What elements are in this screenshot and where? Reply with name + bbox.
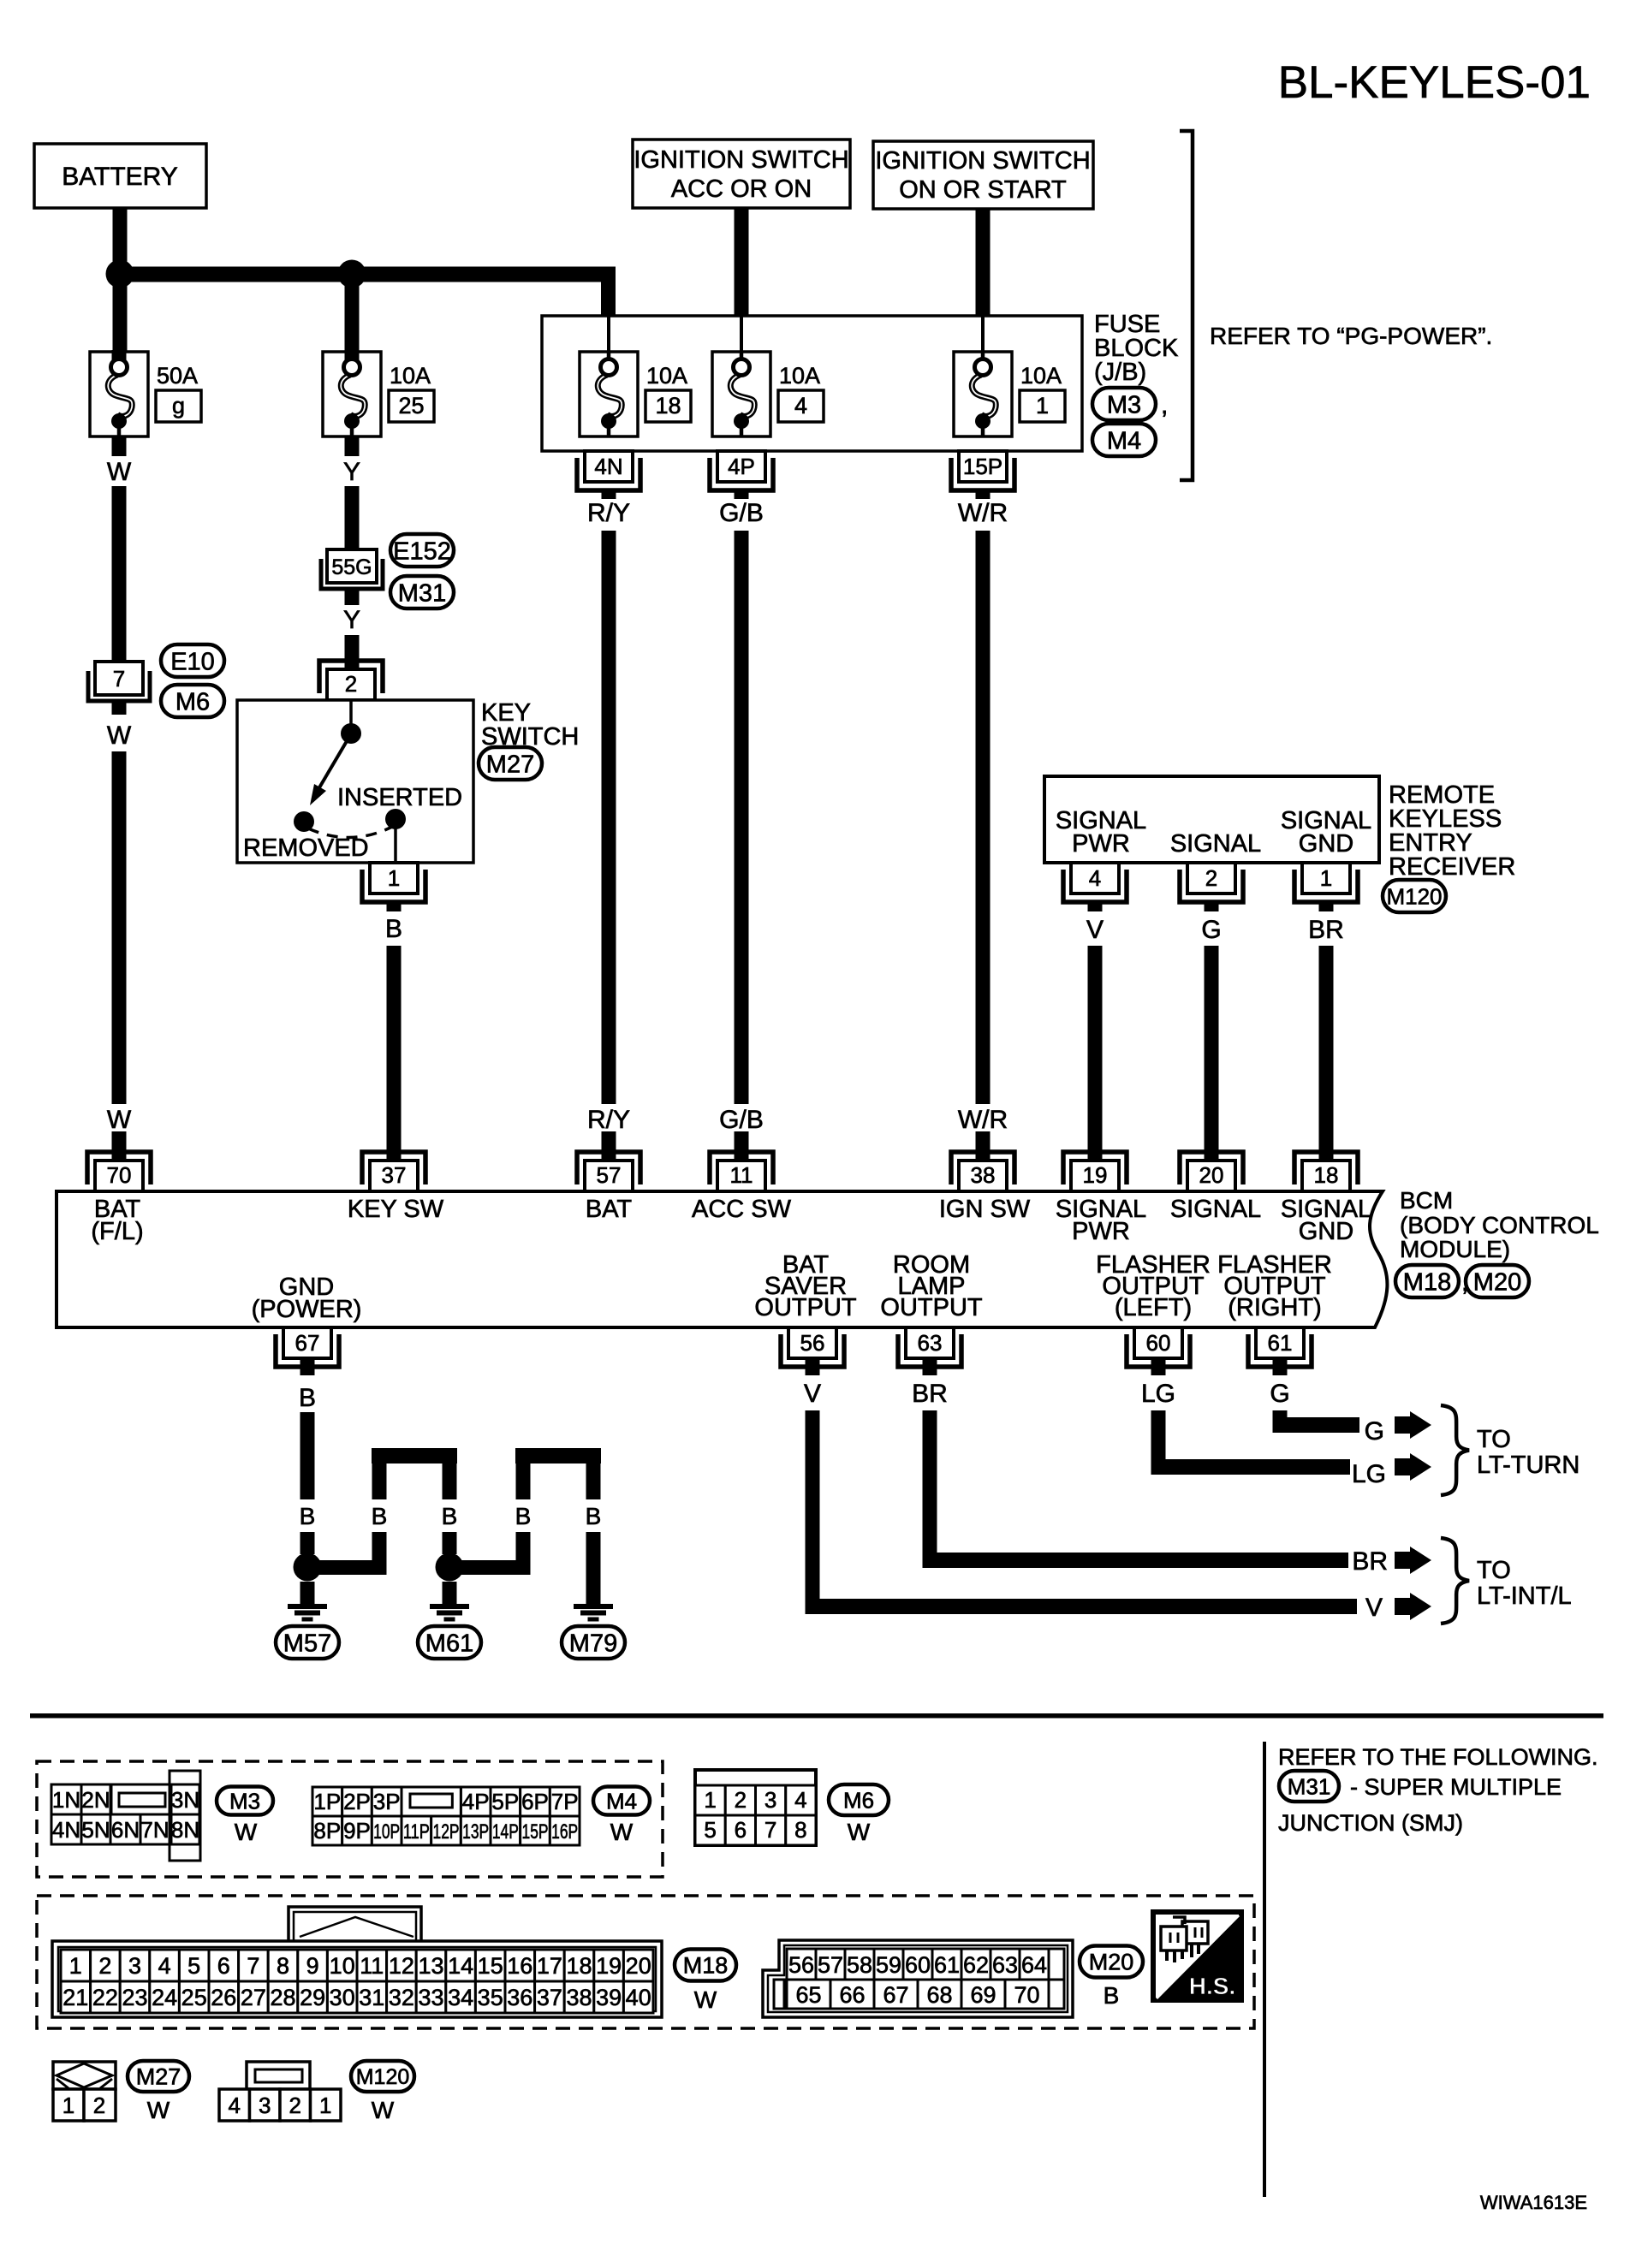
svg-text:LT-TURN: LT-TURN bbox=[1477, 1452, 1579, 1479]
jumper 1 top bbox=[372, 1448, 457, 1464]
fuse 10A 18 bbox=[580, 352, 638, 436]
connector M3 pin grid bbox=[111, 1784, 170, 1814]
BCM pin 19 bbox=[1063, 1152, 1127, 1184]
jumper 2 left leg, B bbox=[516, 1464, 531, 1499]
receiver pin 2 bbox=[1180, 870, 1243, 902]
svg-text:W/R: W/R bbox=[958, 499, 1008, 527]
svg-text:M61: M61 bbox=[425, 1630, 473, 1657]
svg-text:BCM: BCM bbox=[1400, 1187, 1453, 1214]
ground symbol M79 bbox=[574, 1604, 613, 1609]
pin 4N of fuse block bbox=[577, 458, 640, 490]
dashed box M18 M20 bbox=[37, 1896, 1254, 2028]
svg-text:B: B bbox=[586, 1503, 602, 1529]
svg-text:65: 65 bbox=[795, 1982, 821, 2008]
svg-text:10A: 10A bbox=[1020, 363, 1062, 389]
label M3 W bbox=[217, 1787, 273, 1815]
svg-text:60: 60 bbox=[905, 1952, 931, 1978]
svg-text:63: 63 bbox=[992, 1952, 1018, 1978]
separator line bbox=[30, 1713, 1603, 1719]
ground junction M61 bbox=[436, 1553, 464, 1582]
svg-text:38: 38 bbox=[566, 1985, 592, 2010]
svg-text:61: 61 bbox=[934, 1952, 960, 1978]
svg-text:2: 2 bbox=[345, 671, 357, 697]
svg-text:27: 27 bbox=[241, 1985, 266, 2010]
svg-text:G/B: G/B bbox=[719, 499, 764, 527]
receiver pin 4 bbox=[1063, 870, 1127, 902]
svg-text:G: G bbox=[1365, 1417, 1384, 1446]
svg-text:11: 11 bbox=[730, 1162, 753, 1188]
label M20 B bbox=[1080, 1946, 1143, 1978]
svg-text:MODULE): MODULE) bbox=[1400, 1236, 1510, 1262]
label M6 bbox=[161, 685, 224, 717]
key switch INSERTED contact bbox=[385, 809, 406, 829]
svg-text:4P: 4P bbox=[462, 1789, 490, 1814]
svg-text:15: 15 bbox=[478, 1953, 503, 1979]
svg-text:38: 38 bbox=[971, 1162, 996, 1188]
svg-text:(POWER): (POWER) bbox=[252, 1296, 362, 1323]
svg-text:59: 59 bbox=[876, 1952, 901, 1978]
svg-text:3P: 3P bbox=[373, 1789, 401, 1814]
svg-text:M27: M27 bbox=[486, 751, 534, 778]
svg-text:GND: GND bbox=[1299, 1218, 1353, 1245]
svg-text:1: 1 bbox=[1320, 865, 1332, 891]
wire BCM 63 output, BR bbox=[923, 1357, 937, 1375]
connector M120 symbol bbox=[247, 2062, 310, 2089]
svg-text:B: B bbox=[299, 1384, 316, 1412]
label M6 W bbox=[829, 1784, 889, 1815]
svg-text:W: W bbox=[848, 1819, 871, 1845]
svg-text:B: B bbox=[515, 1503, 532, 1529]
fuse 10A 25 bbox=[323, 352, 381, 436]
svg-text:2: 2 bbox=[735, 1787, 747, 1813]
svg-text:W: W bbox=[372, 2097, 395, 2123]
wire 4N to BCM 57, R/Y bbox=[602, 490, 616, 499]
svg-text:W/R: W/R bbox=[958, 1106, 1008, 1134]
brace TO LT-INT/L bbox=[1441, 1538, 1469, 1624]
arrow BR bbox=[1395, 1552, 1410, 1569]
svg-text:3: 3 bbox=[128, 1953, 141, 1979]
svg-text:H.S.: H.S. bbox=[1189, 1973, 1235, 1999]
svg-text:57: 57 bbox=[597, 1162, 622, 1188]
BCM pin 70 bbox=[87, 1152, 151, 1184]
svg-text:KEY SW: KEY SW bbox=[348, 1196, 444, 1223]
svg-text:6P: 6P bbox=[521, 1789, 549, 1814]
svg-text:37: 37 bbox=[537, 1985, 562, 2010]
arrow LG bbox=[1395, 1458, 1410, 1475]
wire BCM 61 output, G bbox=[1273, 1357, 1288, 1375]
svg-text:19: 19 bbox=[1083, 1162, 1108, 1188]
svg-text:18: 18 bbox=[1314, 1162, 1339, 1188]
wire ignition ACC to fuse block bbox=[735, 208, 749, 316]
wire fuse 25 to 55G, Y bbox=[345, 436, 360, 456]
svg-text:W: W bbox=[107, 458, 132, 486]
key switch pin 1 bbox=[362, 870, 425, 902]
svg-text:BR: BR bbox=[1352, 1547, 1388, 1576]
svg-text:30: 30 bbox=[330, 1985, 355, 2010]
svg-text:70: 70 bbox=[107, 1162, 132, 1188]
H.S. hand symbol bbox=[1153, 1912, 1241, 2000]
wire bus turn down to fuse block bbox=[601, 282, 616, 316]
svg-text:M31: M31 bbox=[1288, 1773, 1331, 1799]
label E152 bbox=[390, 534, 454, 567]
svg-text:REFER TO “PG-POWER”.: REFER TO “PG-POWER”. bbox=[1210, 323, 1492, 349]
key switch throw arrow bbox=[318, 741, 347, 789]
svg-text:4: 4 bbox=[1089, 865, 1101, 891]
svg-text:18: 18 bbox=[655, 393, 681, 419]
wire BCM 60 output, LG bbox=[1151, 1357, 1166, 1375]
svg-text:63: 63 bbox=[918, 1330, 943, 1356]
svg-text:17: 17 bbox=[537, 1953, 562, 1979]
svg-text:25: 25 bbox=[398, 393, 424, 419]
key switch REMOVED contact bbox=[294, 811, 314, 832]
svg-text:W: W bbox=[610, 1819, 634, 1845]
label M4 W bbox=[593, 1787, 650, 1815]
svg-text:R/Y: R/Y bbox=[587, 1106, 630, 1134]
svg-text:23: 23 bbox=[122, 1985, 147, 2010]
connector M4 pin grid bbox=[312, 1787, 342, 1816]
svg-text:6N: 6N bbox=[111, 1817, 140, 1843]
svg-text:LT-INT/L: LT-INT/L bbox=[1477, 1582, 1572, 1610]
svg-text:4: 4 bbox=[794, 1787, 806, 1813]
svg-text:31: 31 bbox=[359, 1985, 384, 2010]
key switch inserted lead to pin 1 bbox=[394, 819, 397, 863]
svg-text:M31: M31 bbox=[398, 579, 446, 607]
svg-text:BL-KEYLES-01: BL-KEYLES-01 bbox=[1278, 57, 1591, 108]
svg-text:4: 4 bbox=[158, 1953, 171, 1979]
svg-text:60: 60 bbox=[1146, 1330, 1171, 1356]
svg-text:ON OR START: ON OR START bbox=[899, 176, 1067, 204]
svg-text:10: 10 bbox=[330, 1953, 355, 1979]
label M61 bbox=[418, 1626, 481, 1659]
svg-text:M20: M20 bbox=[1473, 1268, 1521, 1296]
svg-text:4: 4 bbox=[228, 2093, 240, 2118]
svg-text:M79: M79 bbox=[569, 1630, 617, 1657]
svg-text:IGN SW: IGN SW bbox=[939, 1196, 1031, 1223]
svg-text:B: B bbox=[1104, 1982, 1120, 2009]
jumper 1 right leg, B bbox=[443, 1464, 457, 1499]
svg-text:IGNITION SWITCH: IGNITION SWITCH bbox=[875, 147, 1090, 175]
bus wire horizontal bbox=[112, 267, 616, 282]
svg-text:WIWA1613E: WIWA1613E bbox=[1480, 2192, 1587, 2213]
svg-text:2: 2 bbox=[93, 2093, 105, 2118]
svg-text:35: 35 bbox=[478, 1985, 503, 2010]
svg-text:PWR: PWR bbox=[1072, 1218, 1130, 1245]
svg-text:9P: 9P bbox=[343, 1818, 371, 1843]
svg-text:M4: M4 bbox=[1107, 427, 1141, 454]
svg-text:61: 61 bbox=[1268, 1330, 1293, 1356]
label M79 bbox=[562, 1626, 625, 1659]
svg-text:14P: 14P bbox=[492, 1820, 519, 1843]
ground symbol M61 bbox=[430, 1604, 469, 1609]
svg-text:RECEIVER: RECEIVER bbox=[1389, 853, 1515, 881]
remote keyless entry receiver box bbox=[1044, 776, 1379, 863]
svg-text:M4: M4 bbox=[606, 1788, 637, 1814]
svg-text:4P: 4P bbox=[728, 454, 755, 479]
wire to fuse 50A bbox=[113, 282, 128, 360]
svg-text:REMOVED: REMOVED bbox=[243, 834, 369, 862]
svg-text:INSERTED: INSERTED bbox=[337, 784, 462, 811]
svg-text:20: 20 bbox=[626, 1953, 651, 1979]
svg-text:70: 70 bbox=[1014, 1982, 1039, 2008]
ground link wire M61 bbox=[449, 1560, 530, 1575]
arrow V bbox=[1395, 1598, 1410, 1615]
BCM body control module box bbox=[57, 1191, 1387, 1327]
wire 15P to BCM 38, W/R bbox=[976, 490, 991, 499]
key switch box M27 bbox=[237, 700, 473, 863]
junction node battery bbox=[106, 260, 134, 288]
svg-text:OUTPUT: OUTPUT bbox=[880, 1294, 983, 1321]
BCM pin 57 bbox=[577, 1152, 640, 1184]
wire BCM 56 output, V bbox=[806, 1357, 820, 1375]
connector M18 pins bbox=[61, 1950, 91, 1981]
key switch common pole bbox=[349, 700, 353, 733]
arrow G bbox=[1395, 1416, 1410, 1434]
svg-text:BR: BR bbox=[912, 1380, 948, 1408]
BCM pin 38 bbox=[951, 1152, 1014, 1184]
svg-text:(J/B): (J/B) bbox=[1094, 359, 1146, 386]
svg-text:10A: 10A bbox=[779, 363, 820, 389]
svg-text:1: 1 bbox=[319, 2093, 331, 2118]
BCM pin 20 bbox=[1180, 1152, 1243, 1184]
svg-text:2N: 2N bbox=[81, 1787, 110, 1813]
wire ignition START to fuse block bbox=[976, 209, 991, 316]
svg-text:68: 68 bbox=[926, 1982, 952, 2008]
BCM pin 37 bbox=[362, 1152, 425, 1184]
svg-text:4N: 4N bbox=[594, 454, 622, 479]
svg-text:M20: M20 bbox=[1089, 1950, 1134, 1975]
wire fuse g to connector 7, W bbox=[112, 436, 127, 456]
svg-text:10P: 10P bbox=[373, 1820, 400, 1843]
BCM pin 18 bbox=[1294, 1152, 1358, 1184]
svg-text:2P: 2P bbox=[343, 1789, 371, 1814]
svg-text:7: 7 bbox=[247, 1953, 259, 1979]
wire BCM 67 down, B bbox=[300, 1357, 315, 1375]
label M31 SMJ bbox=[1279, 1771, 1339, 1802]
svg-text:W: W bbox=[107, 1106, 132, 1134]
svg-text:29: 29 bbox=[300, 1985, 325, 2010]
connector M18 housing bbox=[289, 1907, 421, 1944]
svg-text:E10: E10 bbox=[170, 648, 215, 675]
svg-text:33: 33 bbox=[418, 1985, 443, 2010]
svg-text:4N: 4N bbox=[52, 1817, 80, 1843]
BCM pin 60 bbox=[1127, 1334, 1190, 1367]
svg-text:- SUPER MULTIPLE: - SUPER MULTIPLE bbox=[1350, 1774, 1562, 1800]
svg-text:58: 58 bbox=[847, 1952, 872, 1978]
svg-text:9: 9 bbox=[306, 1953, 319, 1979]
connector M20 housing bbox=[763, 1940, 1073, 2017]
svg-text:M120: M120 bbox=[1386, 883, 1442, 909]
svg-text:5P: 5P bbox=[491, 1789, 519, 1814]
svg-text:SIGNAL: SIGNAL bbox=[1170, 830, 1261, 858]
svg-text:1P: 1P bbox=[313, 1789, 341, 1814]
svg-text:3: 3 bbox=[259, 2093, 271, 2118]
svg-text:7: 7 bbox=[113, 666, 125, 692]
svg-text:11P: 11P bbox=[403, 1820, 430, 1843]
svg-text:M6: M6 bbox=[843, 1787, 874, 1813]
svg-text:g: g bbox=[172, 393, 185, 419]
svg-text:56: 56 bbox=[788, 1952, 814, 1978]
svg-text:11: 11 bbox=[360, 1953, 384, 1979]
BCM pin 11 bbox=[710, 1152, 773, 1184]
svg-text:57: 57 bbox=[818, 1952, 843, 1978]
wire receiver 2 to BCM 20, G bbox=[1205, 901, 1219, 911]
fuse 10A 4 lead bbox=[740, 316, 743, 361]
svg-text:36: 36 bbox=[507, 1985, 532, 2010]
svg-text:B: B bbox=[372, 1503, 388, 1529]
fuse 10A 4 bbox=[712, 352, 770, 436]
ground link wire M57 bbox=[307, 1560, 386, 1575]
svg-text:M18: M18 bbox=[1403, 1268, 1451, 1296]
svg-text:67: 67 bbox=[295, 1330, 320, 1356]
svg-text:13P: 13P bbox=[462, 1820, 489, 1843]
svg-text:1: 1 bbox=[62, 2093, 74, 2118]
svg-text:R/Y: R/Y bbox=[587, 499, 630, 527]
svg-text:21: 21 bbox=[62, 1985, 88, 2010]
svg-text:G/B: G/B bbox=[719, 1106, 764, 1134]
svg-text:V: V bbox=[1086, 916, 1104, 944]
svg-text:18: 18 bbox=[566, 1953, 592, 1979]
svg-text:40: 40 bbox=[626, 1985, 651, 2010]
svg-text:M6: M6 bbox=[175, 688, 210, 715]
BCM pin 63 bbox=[898, 1334, 961, 1367]
svg-text:M18: M18 bbox=[683, 1953, 729, 1979]
svg-text:ACC SW: ACC SW bbox=[692, 1196, 792, 1223]
svg-text:12P: 12P bbox=[433, 1820, 460, 1843]
connector M27 symbol bbox=[53, 2062, 116, 2089]
svg-text:B: B bbox=[442, 1503, 458, 1529]
svg-text:5N: 5N bbox=[81, 1817, 110, 1843]
svg-text:BATTERY: BATTERY bbox=[62, 163, 178, 191]
label M31 bbox=[390, 576, 454, 609]
svg-text:8: 8 bbox=[794, 1817, 806, 1843]
jumper 2 top bbox=[515, 1448, 601, 1464]
svg-text:10A: 10A bbox=[390, 363, 431, 389]
svg-text:2: 2 bbox=[98, 1953, 111, 1979]
svg-text:39: 39 bbox=[596, 1985, 622, 2010]
svg-text:8N: 8N bbox=[171, 1817, 199, 1843]
connector label M4 bbox=[1092, 424, 1156, 456]
svg-text:W: W bbox=[107, 721, 132, 750]
wire 4P to BCM 11, G/B bbox=[735, 490, 749, 499]
svg-text:OUTPUT: OUTPUT bbox=[754, 1294, 857, 1321]
label M20 bbox=[1466, 1265, 1529, 1297]
fuse 10A 1 lead bbox=[981, 316, 985, 361]
svg-text:3: 3 bbox=[764, 1787, 776, 1813]
svg-text:TO: TO bbox=[1477, 1426, 1511, 1453]
svg-text:1: 1 bbox=[1036, 393, 1049, 419]
label M120 bbox=[1383, 880, 1446, 912]
svg-text:B: B bbox=[385, 915, 402, 943]
svg-text:5: 5 bbox=[187, 1953, 200, 1979]
svg-text:16: 16 bbox=[507, 1953, 532, 1979]
svg-text:LG: LG bbox=[1352, 1460, 1386, 1488]
svg-text:LG: LG bbox=[1141, 1380, 1175, 1408]
svg-text:IGNITION SWITCH: IGNITION SWITCH bbox=[634, 146, 848, 174]
connector 55G E152/M31 bbox=[327, 549, 377, 583]
svg-text:25: 25 bbox=[181, 1985, 207, 2010]
svg-text:E152: E152 bbox=[393, 537, 451, 565]
BCM pin 56 bbox=[781, 1334, 844, 1367]
pin 15P of fuse block bbox=[951, 458, 1014, 490]
svg-text:66: 66 bbox=[839, 1982, 865, 2008]
svg-text:28: 28 bbox=[270, 1985, 295, 2010]
svg-text:M120: M120 bbox=[356, 2065, 410, 2089]
label M120 W bbox=[351, 2061, 414, 2092]
svg-text:15P: 15P bbox=[963, 454, 1002, 479]
key switch dashed arc bbox=[308, 827, 392, 838]
receiver pin 1 bbox=[1294, 870, 1358, 902]
label M27 W bbox=[128, 2061, 189, 2092]
svg-text:BR: BR bbox=[1308, 916, 1344, 944]
svg-text:Y: Y bbox=[343, 606, 360, 634]
svg-text:ACC OR ON: ACC OR ON bbox=[671, 175, 812, 203]
svg-text:13: 13 bbox=[418, 1953, 443, 1979]
junction node fuse 25 tap bbox=[338, 260, 366, 288]
svg-text:JUNCTION (SMJ): JUNCTION (SMJ) bbox=[1278, 1810, 1463, 1836]
wire connector 7 to BCM pin 70, W bbox=[112, 701, 127, 715]
svg-text:W: W bbox=[235, 1819, 258, 1845]
wire 55G to key switch pin 2, Y bbox=[345, 589, 360, 605]
svg-text:15P: 15P bbox=[522, 1820, 549, 1843]
svg-text:M3: M3 bbox=[1107, 391, 1141, 419]
svg-text:G: G bbox=[1270, 1380, 1289, 1408]
ground symbol M57 bbox=[288, 1604, 327, 1609]
svg-text:B: B bbox=[300, 1503, 316, 1529]
jumper 2 right leg, B bbox=[586, 1464, 601, 1499]
wire receiver 1 to BCM 18, BR bbox=[1319, 901, 1334, 911]
wire key switch pin 1 to BCM pin 37, B bbox=[387, 901, 402, 911]
key switch pin 2 bbox=[319, 661, 383, 693]
svg-text:3N: 3N bbox=[171, 1787, 199, 1813]
svg-text:V: V bbox=[804, 1380, 821, 1408]
svg-text:BAT: BAT bbox=[586, 1196, 633, 1223]
svg-text:8P: 8P bbox=[313, 1818, 341, 1843]
svg-text:22: 22 bbox=[92, 1985, 118, 2010]
svg-text:,: , bbox=[1161, 391, 1168, 419]
svg-text:G: G bbox=[1201, 916, 1221, 944]
battery box bbox=[34, 144, 206, 208]
svg-text:32: 32 bbox=[389, 1985, 414, 2010]
connector M20 pins bbox=[787, 1949, 816, 1980]
svg-text:1N: 1N bbox=[52, 1787, 80, 1813]
fuse 10A 18 lead bbox=[607, 316, 610, 361]
svg-text:5: 5 bbox=[704, 1817, 716, 1843]
svg-text:2: 2 bbox=[289, 2093, 300, 2118]
svg-text:7N: 7N bbox=[140, 1817, 169, 1843]
svg-text:1: 1 bbox=[69, 1953, 82, 1979]
svg-text:PWR: PWR bbox=[1072, 830, 1130, 858]
ground junction M57 bbox=[294, 1553, 322, 1582]
svg-text:Y: Y bbox=[343, 458, 360, 486]
svg-text:TO: TO bbox=[1477, 1557, 1511, 1584]
wire to fuse 10A 25 bbox=[345, 282, 360, 360]
fuse block J/B box bbox=[542, 316, 1082, 451]
svg-text:6: 6 bbox=[735, 1817, 747, 1843]
BCM pin 61 bbox=[1248, 1334, 1312, 1367]
label M57 bbox=[276, 1626, 339, 1659]
svg-text:4: 4 bbox=[794, 393, 807, 419]
svg-text:GND: GND bbox=[1299, 830, 1353, 858]
svg-text:M3: M3 bbox=[229, 1788, 260, 1814]
svg-text:(BODY CONTROL: (BODY CONTROL bbox=[1400, 1212, 1599, 1238]
svg-text:67: 67 bbox=[883, 1982, 908, 2008]
label M18 bbox=[1395, 1265, 1459, 1297]
svg-text:50A: 50A bbox=[157, 363, 198, 389]
fuse 50A g bbox=[90, 352, 148, 436]
svg-text:16P: 16P bbox=[551, 1820, 578, 1843]
connector label M3 bbox=[1092, 388, 1156, 420]
svg-text:W: W bbox=[694, 1986, 717, 2013]
